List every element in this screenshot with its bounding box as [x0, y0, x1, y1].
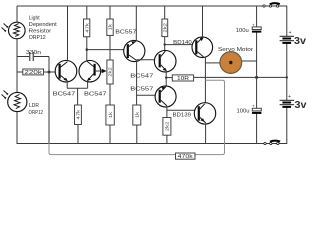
- capacitor 100u (top): [236, 6, 261, 77]
- wire left column (LDR divider): [16, 6, 18, 144]
- wire feedback link (gray): [195, 80, 225, 154]
- transistor BD139: [194, 103, 215, 124]
- resistor 1k (below trimpot): [106, 105, 114, 144]
- switch (top, on-off): [263, 3, 280, 7]
- svg-text:2k2: 2k2: [165, 121, 170, 131]
- svg-text:+: +: [252, 22, 255, 27]
- svg-text:100u: 100u: [237, 108, 250, 114]
- resistor 47k (diff pair tail): [75, 105, 82, 144]
- svg-text:1k: 1k: [135, 111, 140, 118]
- capacitor 330n: [17, 52, 49, 61]
- transistor Q2 BC547 (diff pair right, mirrored): [79, 60, 101, 82]
- svg-text:220k: 220k: [24, 70, 42, 76]
- transistor BC547 (upper totem): [154, 50, 176, 72]
- svg-text:Dependent: Dependent: [29, 22, 57, 28]
- wire 330n/470k feedback column: [48, 57, 50, 145]
- capacitor 100u (bottom): [237, 77, 262, 144]
- servo motor (orange): [220, 52, 242, 74]
- svg-text:+: +: [288, 94, 291, 100]
- transistor BD140: [192, 37, 213, 58]
- wire Q1 collector to rail: [67, 6, 69, 61]
- svg-text:BD139: BD139: [173, 113, 192, 119]
- svg-text:BC557: BC557: [130, 86, 153, 92]
- svg-text:1k: 1k: [108, 23, 113, 30]
- node BD140 base junction: [164, 43, 166, 45]
- resistor 470k (feedback): [176, 153, 196, 160]
- svg-text:ORP12: ORP12: [29, 110, 44, 116]
- svg-text:BD140: BD140: [173, 40, 192, 46]
- svg-text:Light: Light: [29, 16, 40, 22]
- wire BD140/BD139 output column: [204, 57, 206, 103]
- node output to 10R: [165, 76, 167, 78]
- resistor 1k (top of trimpot chain): [107, 6, 113, 60]
- wire BC557u collector down / driver node: [136, 60, 138, 105]
- label Light Dependent Resistor ORP12: [29, 16, 57, 41]
- svg-text:10R: 10R: [177, 76, 189, 82]
- svg-text:470k: 470k: [178, 154, 194, 160]
- wire BD139 emitter to ground rail: [205, 124, 207, 144]
- svg-text:+: +: [252, 104, 255, 109]
- node junction dot (feedback to base): [48, 71, 51, 74]
- svg-text:LDR: LDR: [29, 103, 39, 109]
- wire Q2 collector to 47k: [86, 37, 88, 61]
- battery 3v (bottom): [280, 77, 307, 144]
- transistor Q1 BC547 (diff pair left): [55, 60, 77, 82]
- svg-text:47k: 47k: [84, 22, 89, 32]
- transistor BC557 (upper, inverter): [124, 40, 145, 61]
- svg-text:Servo Motor: Servo Motor: [218, 47, 253, 53]
- resistor 10R: [172, 75, 193, 82]
- svg-text:BC547: BC547: [130, 73, 153, 79]
- svg-text:+: +: [289, 30, 292, 36]
- wire BD140 emitter to rail: [202, 6, 204, 37]
- svg-text:ORP12: ORP12: [29, 35, 46, 41]
- LDR1 ORP12 (top): [2, 22, 26, 39]
- svg-text:BC547: BC547: [84, 91, 107, 97]
- svg-text:2k2: 2k2: [108, 67, 113, 77]
- wire BC557u emitter to rail: [135, 6, 137, 41]
- resistor 220k: [17, 69, 59, 76]
- wire mid rail (battery centre tap): [194, 76, 287, 78]
- node mid rail / battery column: [286, 76, 288, 78]
- wire servo left lead: [205, 62, 220, 64]
- wire servo right lead: [242, 60, 257, 62]
- wire bottom ground rail: [17, 143, 287, 145]
- wire driver node to BC547 base: [137, 59, 159, 61]
- transistor BC557 (lower totem): [155, 86, 176, 107]
- label LDR ORP12: [29, 103, 44, 116]
- resistor 2k2 (BD139 base pulldown): [163, 118, 171, 145]
- svg-text:3v: 3v: [295, 99, 307, 111]
- svg-text:47k: 47k: [76, 109, 81, 119]
- trimpot 2k2: [107, 60, 113, 105]
- svg-text:BC557: BC557: [115, 29, 136, 35]
- node Q2 collector / BC557 base junction: [86, 48, 89, 51]
- svg-text:Resistor: Resistor: [29, 28, 52, 34]
- switch (bottom, on-off): [264, 141, 280, 145]
- svg-text:1k: 1k: [108, 111, 113, 118]
- wire driver node to BC557 base: [137, 94, 159, 96]
- wire totem emitters junction: [165, 72, 167, 87]
- resistor 1k (driver node pulldown): [133, 105, 141, 144]
- svg-text:100u: 100u: [236, 28, 249, 34]
- wire BC557l collector to BD139 base node: [166, 106, 168, 117]
- wire Q2 base to trimpot with arrow: [96, 69, 107, 73]
- battery 3v (top): [280, 6, 307, 77]
- node mid rail / cap column: [255, 76, 258, 79]
- svg-text:2k2: 2k2: [163, 22, 168, 32]
- LDR2 ORP12 (bottom): [2, 91, 27, 112]
- svg-text:BC547: BC547: [53, 91, 75, 97]
- resistor 2k2 (BD140 base chain): [162, 6, 168, 51]
- wire top supply rail: [17, 5, 287, 7]
- svg-text:3v: 3v: [294, 35, 306, 47]
- wire Q2 collector to BC557 base: [87, 49, 124, 51]
- wire emitter bracket of diff pair: [67, 81, 87, 105]
- resistor 47k (Q2 collector load): [84, 6, 90, 37]
- wire to BD140 base: [165, 44, 195, 46]
